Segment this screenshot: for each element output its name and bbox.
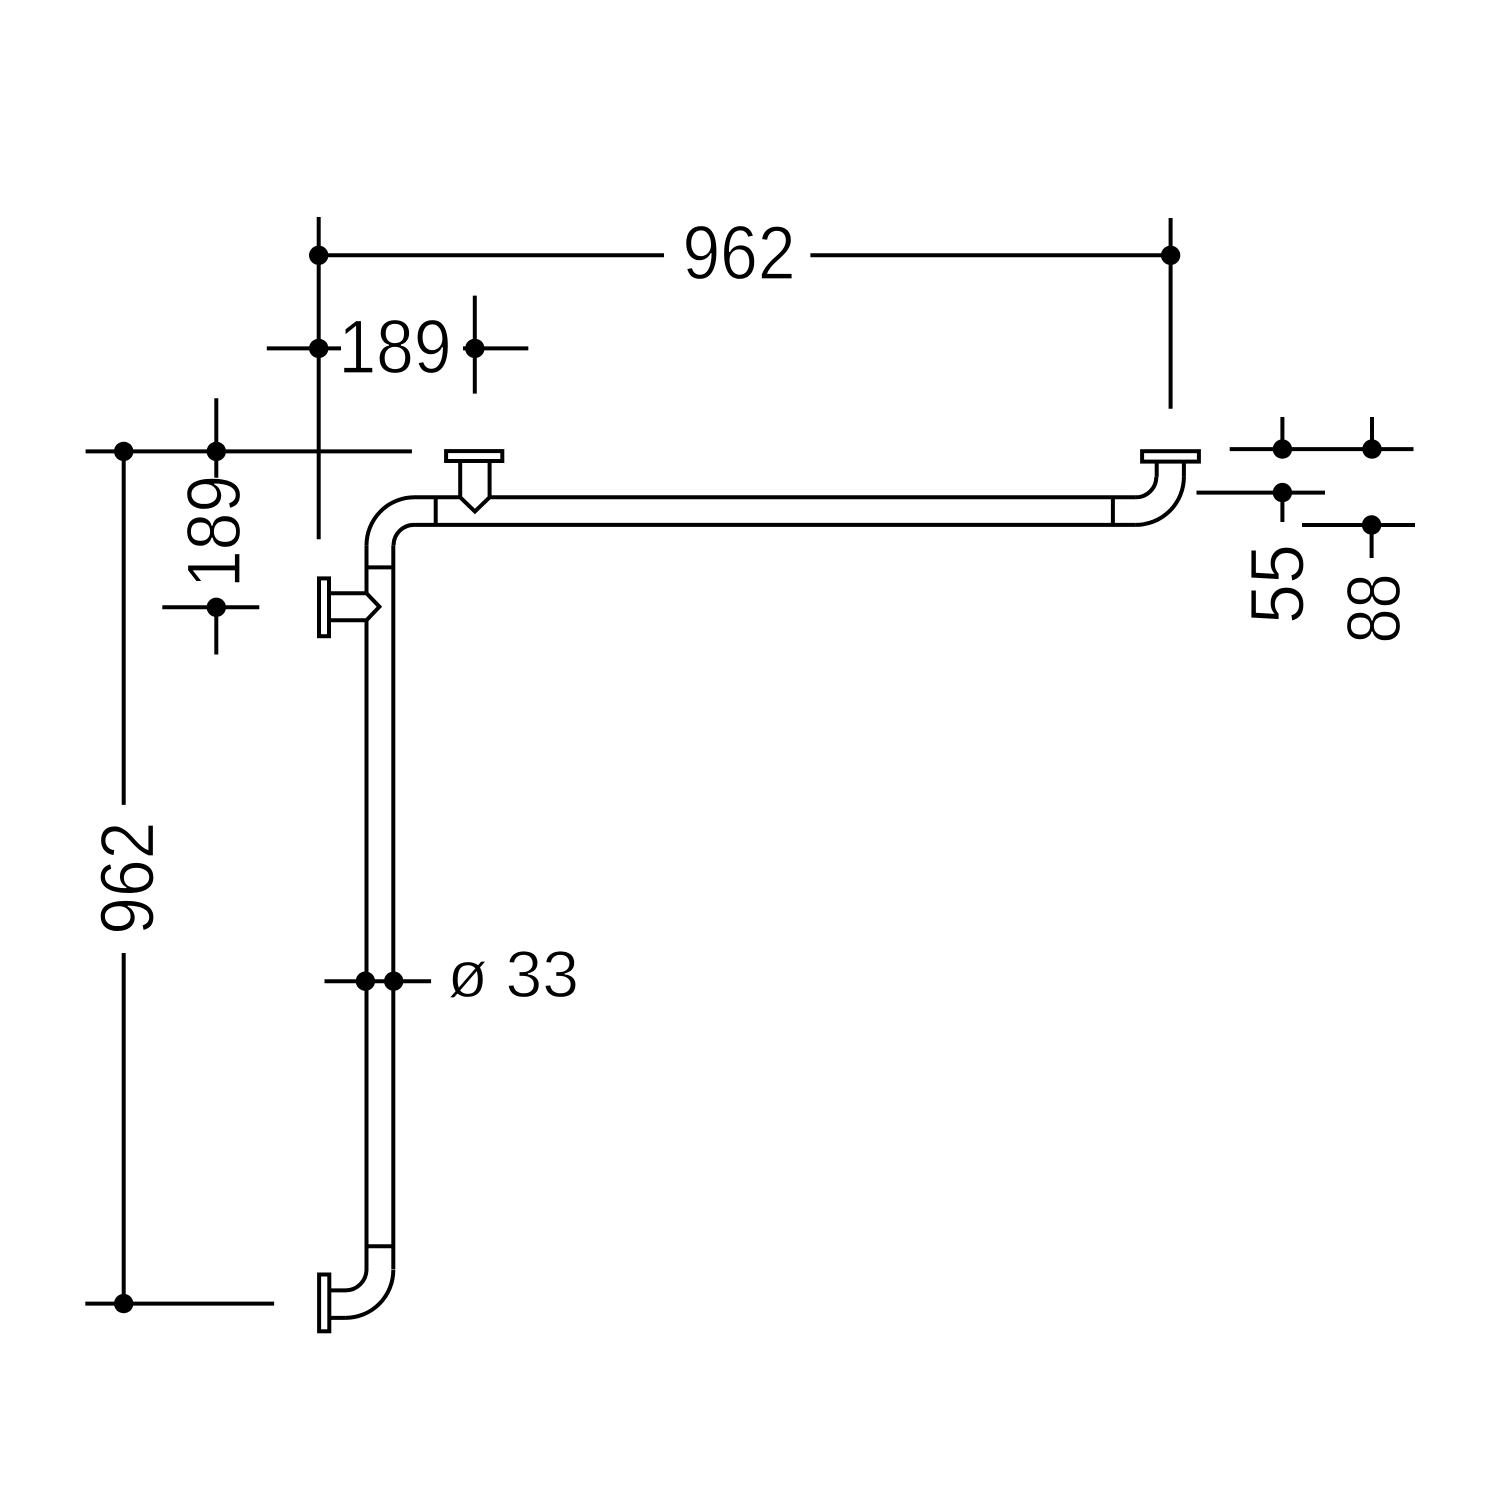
svg-text:962: 962 xyxy=(86,822,171,935)
label 189 top xyxy=(339,305,452,390)
dimension dot 189 right xyxy=(465,339,484,358)
right dimension line 2 bar top xyxy=(1197,491,1326,495)
tick below line3 dot xyxy=(1370,525,1374,558)
right reference line 1 wall plane xyxy=(1230,447,1414,451)
right flange pin xyxy=(1157,462,1184,477)
grab rail corner elbow outer arc xyxy=(367,497,415,545)
dimension line 189 left vertical lower segment xyxy=(214,600,218,655)
right dimension line 3 bar bottom xyxy=(1302,523,1415,527)
dimension dot right line1 for 88 xyxy=(1362,439,1381,458)
dimension line 962 left vertical xyxy=(122,451,126,1303)
label diameter 33 xyxy=(448,937,579,1011)
dimension dot left 962 top xyxy=(114,442,133,461)
grab rail vertical bar right edge xyxy=(391,545,395,1269)
dimension dot diameter right xyxy=(384,972,403,991)
svg-text:189: 189 xyxy=(172,475,257,588)
dimension dot 962 left bottom xyxy=(114,1294,133,1313)
svg-text:88: 88 xyxy=(1332,574,1417,644)
dimension dot right line1 for 55 xyxy=(1273,439,1292,458)
dimension dot 189 left xyxy=(309,339,328,358)
extension line right at x=1170.6 xyxy=(1169,218,1173,409)
svg-text:ø: ø xyxy=(448,937,488,1011)
dimension dot line3 xyxy=(1362,515,1381,534)
top flange pin with arrow into bar xyxy=(460,461,489,512)
side flange pin with arrow into bar xyxy=(330,593,379,620)
extension line left at x=318.7 xyxy=(317,217,321,539)
label 962 left rotated xyxy=(86,822,171,935)
label 962 top xyxy=(683,211,796,296)
label 55 rotated xyxy=(1236,544,1321,624)
vertical bar lower seam joint xyxy=(367,1244,394,1248)
tick through 189 right dot xyxy=(473,296,477,394)
dimension dot 189 left bottom xyxy=(207,598,226,617)
svg-text:189: 189 xyxy=(339,305,452,390)
right end elbow outer arc xyxy=(1136,477,1184,525)
right end seam joint xyxy=(1111,497,1115,525)
cross line at side flange pin level xyxy=(162,605,259,609)
svg-text:55: 55 xyxy=(1236,544,1321,624)
left reference line at wall plane xyxy=(86,449,412,453)
bottom reference line xyxy=(85,1302,274,1306)
dimension dot 962 top right xyxy=(1161,246,1180,265)
bottom elbow outer arc xyxy=(345,1270,393,1318)
tick below line2 dot xyxy=(1280,493,1284,522)
tick above 55 dot xyxy=(1280,417,1284,449)
tick above 88 dot xyxy=(1370,417,1374,449)
grab rail vertical bar left edge xyxy=(365,545,369,1270)
dimension dot diameter left xyxy=(356,972,375,991)
top wall flange plate xyxy=(446,451,502,461)
grab rail horizontal bar top edge xyxy=(415,495,1136,499)
label 189 left rotated xyxy=(172,475,257,588)
right wall flange plate xyxy=(1142,451,1199,461)
corner elbow seam joint xyxy=(434,497,438,525)
dimension line diameter 33 xyxy=(325,979,432,983)
side wall flange plate xyxy=(319,578,329,636)
bottom flange pin xyxy=(330,1290,346,1318)
dimension dot left 189 top xyxy=(207,442,226,461)
vertical bar upper seam joint xyxy=(367,565,394,569)
svg-text:962: 962 xyxy=(683,211,796,296)
grab rail corner elbow inner arc xyxy=(394,525,414,545)
grab rail horizontal bar bottom edge xyxy=(414,523,1136,527)
right end elbow inner arc xyxy=(1136,477,1156,497)
dimension line 189 top xyxy=(267,346,529,350)
bottom wall flange plate xyxy=(319,1275,329,1332)
bottom elbow inner arc xyxy=(346,1270,367,1290)
dimension dot line2 xyxy=(1273,483,1292,502)
svg-text:33: 33 xyxy=(506,937,579,1011)
dimension line 962 top xyxy=(319,253,1171,257)
dimension dot 962 top left xyxy=(309,246,328,265)
label 88 rotated xyxy=(1332,574,1417,644)
tick above left 189 line xyxy=(214,398,218,480)
